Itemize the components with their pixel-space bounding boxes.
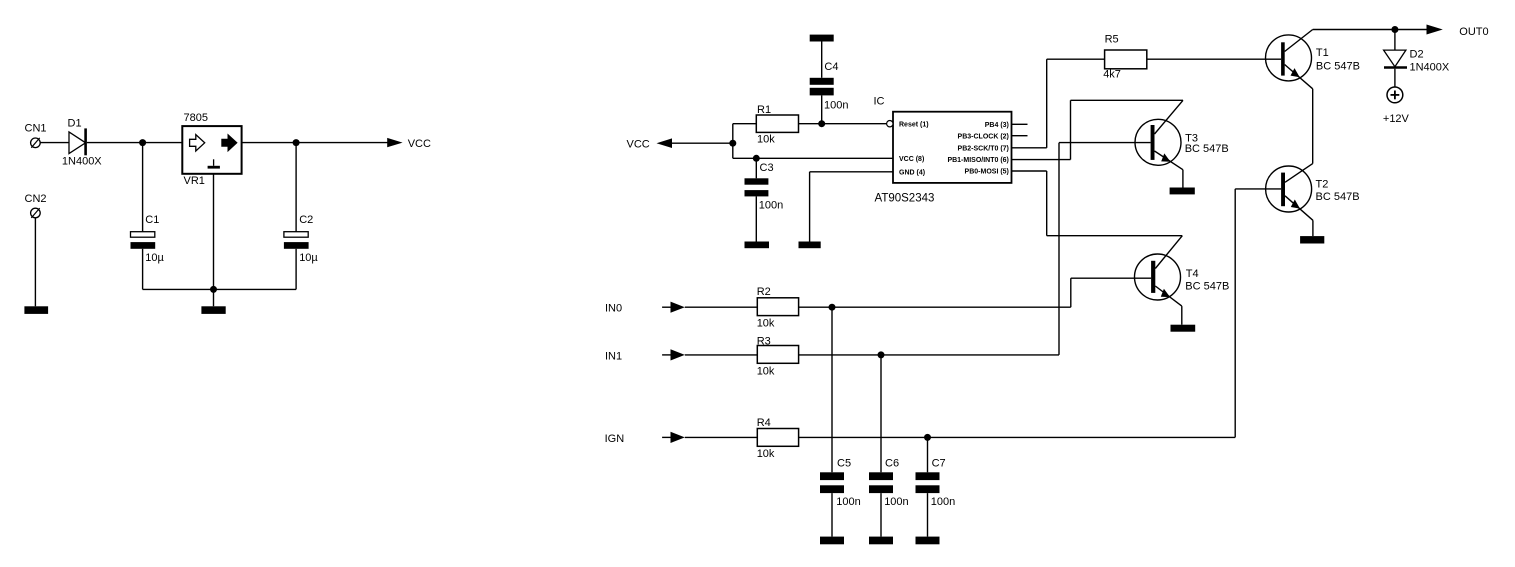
- ground symbol (T3): [1170, 188, 1195, 195]
- resistor R2: [757, 298, 798, 316]
- svg-text:OUT0: OUT0: [1459, 26, 1488, 38]
- LEFT POWER SUPPLY SECTION: [24, 112, 431, 314]
- ground symbol (C3): [745, 242, 770, 249]
- ground symbol (IC GND): [799, 242, 821, 249]
- svg-text:4k7: 4k7: [1103, 69, 1121, 81]
- resistor R1: [756, 115, 798, 132]
- svg-text:BC 547B: BC 547B: [1316, 191, 1360, 203]
- svg-text:C6: C6: [885, 458, 899, 470]
- ground symbol (C7): [916, 537, 940, 545]
- svg-text:IN0: IN0: [605, 303, 622, 315]
- junction node C5 tap: [829, 304, 836, 311]
- svg-text:VCC: VCC: [408, 138, 431, 150]
- wire C5 to ground: [831, 493, 833, 536]
- VR1 output arrow (filled): [222, 135, 237, 151]
- svg-text:PB1-MISO/INT0 (6): PB1-MISO/INT0 (6): [947, 157, 1008, 164]
- svg-text:T4: T4: [1186, 268, 1199, 280]
- junction node reset/C4: [818, 120, 825, 127]
- wire VR1 to VCC arrow: [242, 142, 388, 144]
- connector CN2: [31, 208, 41, 218]
- diode D1: [69, 128, 86, 155]
- svg-text:10k: 10k: [757, 366, 775, 378]
- ground symbol (T4): [1171, 325, 1196, 332]
- regulator VR1 box: [182, 126, 241, 174]
- svg-text:1N400X: 1N400X: [62, 156, 102, 168]
- junction node C3 tap: [753, 155, 760, 162]
- junction node ground rail: [210, 286, 217, 293]
- svg-text:CN1: CN1: [25, 123, 47, 135]
- wire VCC arrow to junction: [671, 142, 733, 144]
- wire C4 to reset junction: [821, 95, 823, 123]
- wire D1 to VR1: [87, 142, 182, 144]
- resistor R3: [757, 346, 798, 364]
- svg-text:7805: 7805: [184, 112, 208, 124]
- svg-text:IN1: IN1: [605, 351, 622, 363]
- wire OUT0 rail to D2: [1394, 30, 1396, 51]
- transistor T1: [1266, 30, 1313, 89]
- ground symbol (C5): [820, 537, 844, 545]
- reset pin inversion circle: [887, 121, 893, 127]
- IN1 input arrow: [671, 349, 685, 360]
- wire IN1 to R3: [685, 354, 758, 356]
- wire T2 base riser from IGN: [1235, 189, 1281, 438]
- wire C7 riser: [927, 437, 929, 472]
- svg-text:BC 547B: BC 547B: [1185, 281, 1229, 293]
- svg-text:C4: C4: [824, 61, 838, 73]
- IN0 input stub: [662, 306, 670, 308]
- wire T1 collector to OUT0: [1313, 29, 1427, 31]
- svg-text:PB2-SCK/T0 (7): PB2-SCK/T0 (7): [958, 145, 1009, 152]
- wire C5 riser: [831, 307, 833, 472]
- svg-text:T2: T2: [1316, 178, 1329, 190]
- wire C1 to bottom rail: [142, 249, 144, 290]
- VR1 input arrow (outline): [190, 135, 205, 151]
- svg-text:IGN: IGN: [605, 433, 625, 445]
- IN1 input stub: [662, 354, 670, 356]
- transistor T2: [1266, 164, 1313, 221]
- wire to R1: [733, 123, 757, 125]
- wire R2 to T4 riser: [799, 306, 1071, 308]
- IGN input stub: [662, 436, 670, 438]
- svg-text:C2: C2: [299, 214, 313, 226]
- wire T4 base riser from IN0: [1071, 278, 1151, 307]
- svg-text:D2: D2: [1410, 49, 1424, 61]
- wire CN2 to ground: [34, 218, 36, 306]
- wire IN0 to R2: [685, 306, 758, 308]
- svg-text:VCC: VCC: [627, 139, 650, 151]
- svg-text:10k: 10k: [757, 134, 775, 146]
- svg-text:R2: R2: [757, 286, 771, 298]
- VR1 internal ground symbol: [208, 159, 220, 168]
- svg-text:R1: R1: [757, 104, 771, 116]
- junction node C6 tap: [878, 351, 885, 358]
- IN0 input arrow: [671, 302, 685, 313]
- wire R4 to T2 riser: [799, 436, 1236, 438]
- wire C3 riser: [755, 158, 757, 178]
- wire IC GND pin: [810, 172, 893, 242]
- svg-text:T1: T1: [1316, 47, 1329, 59]
- wire C2 riser: [295, 143, 297, 232]
- svg-text:BC 547B: BC 547B: [1316, 61, 1360, 73]
- wire C7 to ground: [927, 493, 929, 536]
- svg-text:100n: 100n: [884, 496, 908, 508]
- capacitor C3: [745, 178, 769, 196]
- junction node D2 tap: [1391, 26, 1398, 33]
- ground symbol (C6): [869, 537, 893, 545]
- junction node C1 tap: [139, 139, 146, 146]
- ground symbol (C4, inverted): [810, 35, 834, 42]
- diode D2: [1384, 50, 1407, 67]
- svg-text:PB4 (3): PB4 (3): [985, 122, 1009, 129]
- svg-text:10k: 10k: [757, 448, 775, 460]
- svg-text:VR1: VR1: [184, 175, 205, 187]
- capacitor C6: [869, 472, 893, 493]
- capacitor C2 (polarized): [284, 232, 309, 249]
- svg-text:PB0-MOSI (5): PB0-MOSI (5): [965, 169, 1009, 176]
- svg-text:CN2: CN2: [25, 193, 47, 205]
- svg-text:C7: C7: [932, 458, 946, 470]
- wire C1 riser: [142, 143, 144, 232]
- svg-text:100n: 100n: [836, 496, 860, 508]
- wire T3 emitter to ground: [1182, 170, 1184, 188]
- svg-text:C5: C5: [837, 458, 851, 470]
- svg-text:100n: 100n: [931, 496, 955, 508]
- svg-text:R4: R4: [757, 417, 771, 429]
- svg-text:AT90S2343: AT90S2343: [875, 193, 935, 205]
- transistor T3: [1135, 100, 1183, 169]
- RIGHT MCU SECTION: [627, 25, 1489, 438]
- capacitor C7: [916, 472, 940, 493]
- wire C2 to bottom rail: [295, 249, 297, 290]
- pin stub PB4 (3): [1012, 123, 1028, 125]
- wire bottom ground rail: [143, 288, 297, 290]
- svg-text:GND (4): GND (4): [899, 169, 925, 176]
- capacitor C1 (polarized): [131, 232, 156, 249]
- wire R5 to T1 base: [1147, 58, 1281, 60]
- VCC arrow pointing left: [657, 138, 673, 148]
- op-amp-box IC AT90S2343 outline: [893, 112, 1012, 183]
- OUT0 arrow: [1427, 25, 1443, 35]
- svg-text:C3: C3: [760, 162, 774, 174]
- svg-text:R5: R5: [1105, 34, 1119, 46]
- ground symbol (T2): [1300, 236, 1324, 243]
- INPUT ROWS SECTION: [605, 286, 1236, 544]
- wire T3 base riser from IN1: [1059, 143, 1151, 355]
- ground symbol (VR1/C1/C2): [201, 306, 225, 314]
- wire R1 to reset: [799, 123, 887, 125]
- svg-text:10k: 10k: [757, 318, 775, 330]
- wire C3 to ground: [755, 196, 757, 241]
- svg-text:100n: 100n: [759, 200, 783, 212]
- transistor T4: [1135, 236, 1183, 306]
- svg-text:VCC (8): VCC (8): [899, 156, 924, 163]
- wire VCC row to IC: [733, 157, 893, 159]
- wire PB2 pin 7 to R5: [1012, 59, 1105, 148]
- resistor R5: [1105, 50, 1147, 69]
- wire CN1 to D1: [40, 142, 69, 144]
- wire C6 riser: [880, 355, 882, 472]
- wire D2 to +12V: [1394, 69, 1396, 87]
- wire C6 to ground: [880, 493, 882, 536]
- wire T4 emitter to ground: [1181, 306, 1183, 325]
- wire IGN to R4: [685, 436, 758, 438]
- svg-text:C1: C1: [145, 214, 159, 226]
- capacitor C5: [820, 472, 844, 493]
- wire T1 emitter to T2 collector: [1312, 89, 1314, 164]
- resistor R4: [757, 429, 798, 447]
- VCC arrow (left section): [387, 138, 402, 147]
- svg-text:+12V: +12V: [1383, 113, 1410, 125]
- svg-text:BC 547B: BC 547B: [1185, 143, 1229, 155]
- capacitor C4: [810, 78, 834, 96]
- junction node C2 tap: [293, 139, 300, 146]
- pin stub PB3-CLOCK (2): [1012, 135, 1028, 137]
- wire T2 emitter to ground: [1312, 220, 1314, 236]
- svg-text:10µ: 10µ: [145, 252, 164, 264]
- svg-text:1N400X: 1N400X: [1410, 62, 1450, 74]
- svg-text:D1: D1: [68, 118, 82, 130]
- +12V supply symbol: [1387, 87, 1403, 103]
- svg-text:Reset (1): Reset (1): [899, 121, 929, 128]
- ground symbol (CN2): [24, 306, 48, 314]
- junction node C7 tap: [924, 434, 931, 441]
- wire PB0 pin 5 to T4 collector: [1012, 171, 1183, 236]
- wire PB1 pin 6 to T3 collector: [1012, 100, 1184, 159]
- wire VR1 ground pin: [213, 174, 215, 306]
- svg-text:IC: IC: [874, 96, 885, 108]
- svg-text:10µ: 10µ: [299, 252, 318, 264]
- wire ground to C4: [821, 42, 823, 78]
- svg-text:100n: 100n: [824, 100, 848, 112]
- wire R3 to T3 riser: [799, 354, 1059, 356]
- IGN input arrow: [671, 432, 685, 443]
- connector CN1: [31, 138, 41, 148]
- junction node VCC tee: [729, 140, 736, 147]
- svg-text:PB3-CLOCK (2): PB3-CLOCK (2): [958, 133, 1009, 140]
- wire VCC vertical tee: [732, 124, 734, 159]
